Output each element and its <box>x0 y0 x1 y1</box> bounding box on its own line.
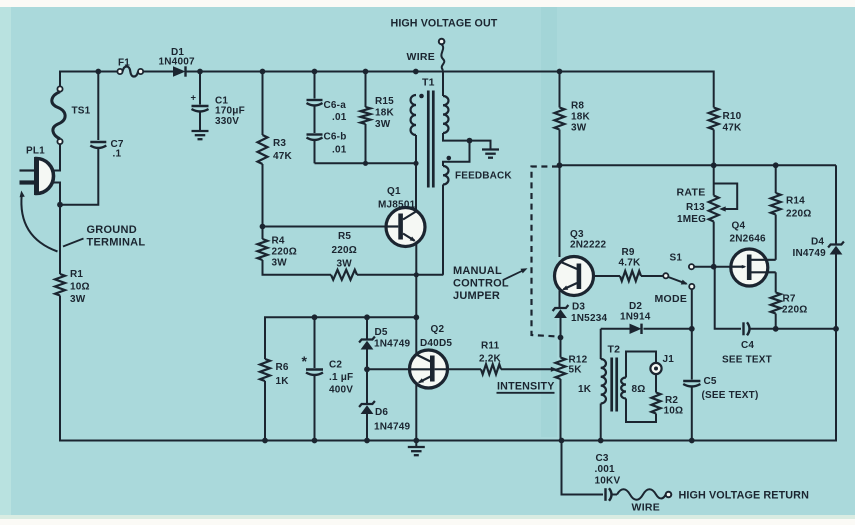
node bottom/T2 <box>598 438 604 444</box>
svg-text:R15: R15 <box>375 96 394 107</box>
svg-text:1K: 1K <box>578 384 592 395</box>
wire T1 secondary top crossover <box>442 70 444 96</box>
fuse F1 <box>117 58 143 77</box>
wire right riser (bottom rail to D4/C4 node) <box>835 329 837 442</box>
wire C6 branch top <box>314 72 316 99</box>
node rail/R3 <box>260 69 266 75</box>
wire C7 top to rail <box>97 72 99 141</box>
svg-text:220Ω: 220Ω <box>782 305 808 316</box>
svg-text:R14: R14 <box>786 196 805 207</box>
wire T2 primary top <box>600 329 602 359</box>
svg-text:5K: 5K <box>569 365 583 376</box>
wire R10 top (rail corner) <box>713 71 715 108</box>
resistor R1 <box>55 269 90 305</box>
wire R13 top <box>713 165 715 195</box>
node S1/R13/Q4-emitter <box>711 264 717 270</box>
svg-text:WIRE: WIRE <box>632 502 661 514</box>
transformer T1 <box>422 77 435 89</box>
svg-text:*: * <box>302 353 308 369</box>
wire MODE pole down <box>691 289 693 329</box>
transistor Q2 D40D5 <box>410 324 453 388</box>
wire PL1 lower blade to junction <box>53 183 60 205</box>
svg-text:8Ω: 8Ω <box>632 384 646 395</box>
wire R8 top <box>559 72 561 108</box>
svg-text:D40D5: D40D5 <box>420 338 452 349</box>
node rail/R15 <box>363 69 369 75</box>
svg-text:TS1: TS1 <box>72 106 91 117</box>
wire (flexible) HV out <box>407 44 445 70</box>
node PL1/C7-return junction <box>57 202 63 208</box>
svg-text:C3: C3 <box>596 453 609 464</box>
svg-text:INTENSITY: INTENSITY <box>497 381 555 393</box>
terminal HV out <box>439 39 445 45</box>
wire Q4 B1 to R7 <box>775 272 777 292</box>
wire C2 top <box>314 317 316 368</box>
svg-text:MODE: MODE <box>655 293 688 305</box>
label HIGH VOLTAGE OUT <box>391 18 498 30</box>
wire bottom ground rail <box>59 440 836 442</box>
potentiometer R13 1MEG (RATE) <box>677 184 738 226</box>
zener D3 1N5234 <box>553 302 608 325</box>
svg-text:1MEG: 1MEG <box>677 214 706 225</box>
wire R3 branch top <box>262 72 264 136</box>
node bottom/C5 <box>689 438 695 444</box>
transistor Q3 2N2222 <box>555 229 607 296</box>
svg-text:220Ω: 220Ω <box>272 247 298 258</box>
T2 primary winding (1K) <box>601 359 606 403</box>
svg-text:2N2646: 2N2646 <box>730 234 766 245</box>
diode D2 1N914 <box>620 301 651 334</box>
svg-text:R8: R8 <box>571 101 584 112</box>
svg-text:Q4: Q4 <box>732 221 746 232</box>
wire Q3 base to R9 <box>581 275 620 277</box>
svg-text:47K: 47K <box>273 151 293 162</box>
wire R2 to secondary bottom <box>626 399 656 423</box>
svg-text:HIGH VOLTAGE OUT: HIGH VOLTAGE OUT <box>391 18 498 30</box>
node mid/R8 <box>557 162 563 168</box>
manual control jumper (dashed) <box>532 167 559 337</box>
node D3/R12/jumper <box>558 335 564 341</box>
resistor R3 <box>258 135 293 164</box>
wire R11 to R12 wiper arrow <box>501 367 557 372</box>
svg-text:10Ω: 10Ω <box>664 406 684 417</box>
wire fuse to D1 <box>143 71 173 73</box>
svg-text:R10: R10 <box>723 111 742 122</box>
svg-text:T2: T2 <box>608 344 621 356</box>
resistor R5 <box>331 231 357 280</box>
T1 phasing dot (feedback) <box>447 156 452 161</box>
svg-text:T1: T1 <box>422 77 435 89</box>
label MANUAL CONTROL JUMPER <box>453 265 528 302</box>
svg-text:.001: .001 <box>595 464 616 475</box>
wire C6-a to C6-b <box>314 107 316 134</box>
wire top B+ rail (left end to fuse) <box>60 71 118 89</box>
node rail/D5 <box>364 314 370 320</box>
svg-text:2N2222: 2N2222 <box>570 240 606 251</box>
resistor R8 <box>555 101 591 134</box>
svg-text:C5: C5 <box>704 376 717 387</box>
svg-text:TERMINAL: TERMINAL <box>87 237 146 249</box>
svg-text:18K: 18K <box>571 112 591 123</box>
wire T1 primary to Q1 collector <box>415 135 417 211</box>
wire feedback to emitter row <box>442 185 444 275</box>
svg-text:D6: D6 <box>375 407 388 418</box>
wire Q2 base <box>367 368 411 370</box>
wire C4 to R7/D4 <box>751 328 837 330</box>
wire junction to C7 bottom <box>60 149 98 205</box>
capacitor C4 <box>722 322 772 365</box>
svg-text:R11: R11 <box>481 341 500 352</box>
T1 secondary winding <box>443 96 448 133</box>
svg-text:3W: 3W <box>70 294 86 305</box>
svg-text:220Ω: 220Ω <box>332 245 358 256</box>
potentiometer R12 5K <box>556 338 592 396</box>
svg-text:HIGH VOLTAGE RETURN: HIGH VOLTAGE RETURN <box>679 490 810 502</box>
svg-text:R13: R13 <box>686 202 705 213</box>
svg-text:IN4749: IN4749 <box>793 248 827 259</box>
transformer T2 <box>608 344 621 356</box>
wire junction to R1 <box>59 205 61 274</box>
wire S1 node down to C4 row <box>714 267 741 329</box>
node rail/C7 <box>95 69 101 75</box>
svg-text:170μF: 170μF <box>215 106 245 117</box>
wire snubber row <box>315 162 417 164</box>
T1 feedback winding <box>443 166 512 185</box>
node mid/R14 <box>773 162 779 168</box>
wire D2 row <box>601 328 692 330</box>
resistor R6 <box>260 359 289 387</box>
wire R5 to feedback corner <box>357 274 443 276</box>
wire C5 bottom <box>691 388 693 442</box>
transistor Q4 2N2646 (UJT) <box>730 221 776 287</box>
wire R8 bottom <box>559 130 561 166</box>
wire secondary bottom tap <box>443 133 491 149</box>
resistor R4 <box>258 236 298 269</box>
node rail/T1 primary <box>413 69 419 75</box>
svg-text:.1: .1 <box>113 149 122 160</box>
node bottom/D6 <box>364 438 370 444</box>
wire R13 bottom <box>713 222 715 267</box>
terminal HV return <box>666 492 672 498</box>
zener D6 1N4749 <box>359 401 410 433</box>
svg-text:400V: 400V <box>329 385 353 396</box>
svg-text:C6-a: C6-a <box>324 100 347 111</box>
wire R15 top <box>365 72 367 108</box>
diode D1 1N4007 <box>159 47 195 77</box>
capacitor C5 <box>683 376 758 401</box>
label HIGH VOLTAGE RETURN <box>679 490 810 502</box>
svg-text:JUMPER: JUMPER <box>453 290 500 302</box>
svg-text:S1: S1 <box>670 253 683 264</box>
wire R14 top <box>775 165 777 193</box>
wire D5 to base node <box>366 350 368 370</box>
svg-text:CONTROL: CONTROL <box>453 278 509 290</box>
wire D5 top <box>366 317 368 339</box>
svg-text:WIRE: WIRE <box>407 51 436 63</box>
T1 primary winding <box>411 95 416 135</box>
node bottom/Q2 emitter <box>413 438 419 444</box>
wire D4 top <box>835 165 837 244</box>
node rail/R8 <box>557 69 563 75</box>
wire Q3 collector <box>559 165 561 257</box>
node rail/C6 <box>312 69 318 75</box>
capacitor C3 .001 10KV <box>595 453 621 501</box>
node snubber/collector <box>413 161 418 166</box>
svg-text:.01: .01 <box>332 112 347 123</box>
capacitor C1 (+) <box>191 93 245 128</box>
T1 phasing dot (primary) <box>419 94 424 99</box>
wire J1 to R2 <box>655 374 657 392</box>
wire D4 bottom <box>835 255 837 329</box>
jack J1 <box>650 354 674 374</box>
wire tap to feedback winding <box>443 141 470 166</box>
svg-text:PL1: PL1 <box>26 146 45 157</box>
capacitor C7 <box>90 139 124 160</box>
svg-text:R2: R2 <box>665 395 678 406</box>
svg-text:18K: 18K <box>375 108 395 119</box>
wire R7 bottom <box>775 314 777 329</box>
T1 core <box>428 91 433 188</box>
wire Q1 base <box>263 226 388 228</box>
svg-text:C6-b: C6-b <box>324 132 347 143</box>
resistor R11 2.2K <box>479 341 502 375</box>
node emitter/divider rail <box>413 314 419 320</box>
svg-text:1N4749: 1N4749 <box>374 339 410 350</box>
switch TS1 <box>52 86 91 144</box>
svg-text:C4: C4 <box>741 340 754 351</box>
wire T2 primary bottom <box>600 404 602 442</box>
zener D5 1N4749 <box>359 327 410 350</box>
svg-text:3W: 3W <box>272 258 288 269</box>
node bottom/C2 <box>312 438 318 444</box>
svg-text:MANUAL: MANUAL <box>453 265 502 277</box>
wire R10 bottom <box>713 130 715 166</box>
node D5/D6/Q2-base <box>364 366 370 372</box>
svg-text:MJ8501: MJ8501 <box>378 200 416 211</box>
ground (main rail) <box>408 441 425 456</box>
node mid/R10-R13 <box>711 162 717 168</box>
svg-text:R4: R4 <box>272 236 285 247</box>
svg-text:47K: 47K <box>723 123 743 134</box>
wire R9 to MODE <box>641 275 663 277</box>
svg-text:R9: R9 <box>622 247 635 258</box>
svg-text:RATE: RATE <box>677 187 706 199</box>
svg-text:Q2: Q2 <box>431 324 445 335</box>
svg-text:D4: D4 <box>811 237 824 248</box>
svg-text:FEEDBACK: FEEDBACK <box>455 171 512 182</box>
wire D6 to bottom rail <box>366 414 368 441</box>
wire TS1 to PL1 upper blade <box>52 144 60 170</box>
wire Q3 emitter to D3 <box>559 291 561 308</box>
wire R14 to Q4 B2 <box>775 215 777 260</box>
svg-text:220Ω: 220Ω <box>786 209 812 220</box>
ground (C1) <box>192 131 209 139</box>
svg-text:.1 μF: .1 μF <box>329 372 353 383</box>
wire R15 bottom <box>365 124 367 163</box>
svg-text:3W: 3W <box>375 119 391 130</box>
svg-text:330V: 330V <box>215 116 239 127</box>
svg-text:10KV: 10KV <box>595 476 621 487</box>
svg-text:3W: 3W <box>337 259 353 270</box>
svg-text:.01: .01 <box>332 145 347 156</box>
svg-text:R7: R7 <box>783 294 796 305</box>
svg-text:C2: C2 <box>329 360 342 371</box>
node C4/D4/riser <box>833 326 839 332</box>
wire C1 branch <box>199 72 201 105</box>
svg-text:Q3: Q3 <box>570 229 584 240</box>
wire Q2 base to R11 <box>435 368 481 370</box>
node tap/feedback <box>467 138 473 144</box>
label INTENSITY <box>497 381 555 393</box>
svg-text:D3: D3 <box>572 302 585 313</box>
wire C3 branch <box>562 441 604 495</box>
svg-text:2.2K: 2.2K <box>479 354 502 365</box>
capacitor C6-a <box>307 100 347 123</box>
node rail/C2 <box>312 314 318 320</box>
svg-text:10Ω: 10Ω <box>70 282 90 293</box>
wire D3 to node <box>560 318 562 338</box>
svg-text:1N4007: 1N4007 <box>159 57 195 68</box>
wire C6-b bottom <box>314 141 316 163</box>
svg-text:3W: 3W <box>571 123 587 134</box>
capacitor C2 <box>302 353 354 396</box>
node R3/R4/Q1-base <box>260 224 266 230</box>
svg-text:D2: D2 <box>629 301 642 312</box>
node bottom/C3 branch <box>559 438 565 444</box>
resistor R2 10ohm <box>651 393 683 417</box>
svg-text:+: + <box>191 93 197 104</box>
switch MODE <box>655 273 695 305</box>
wire secondary top to J1 <box>626 352 656 378</box>
transistor Q1 MJ8501 <box>378 186 425 247</box>
svg-text:1N4749: 1N4749 <box>374 422 410 433</box>
svg-text:D5: D5 <box>375 327 388 338</box>
svg-text:R1: R1 <box>70 269 83 280</box>
wire low divider rail <box>265 317 416 359</box>
switch S1 <box>670 253 732 270</box>
wire R4 to R5 row <box>263 260 332 275</box>
svg-text:(SEE TEXT): (SEE TEXT) <box>702 390 759 401</box>
svg-text:R3: R3 <box>273 138 286 149</box>
wire C5 top <box>691 329 693 380</box>
label GROUND TERMINAL with arrow <box>20 191 146 252</box>
svg-text:4.7K: 4.7K <box>619 258 642 269</box>
svg-text:R5: R5 <box>338 231 351 242</box>
wire R4 top stub <box>262 227 264 240</box>
wire Q2 collector <box>415 317 417 354</box>
svg-text:1K: 1K <box>276 376 290 387</box>
svg-text:SEE TEXT: SEE TEXT <box>722 355 772 366</box>
ground (T1 tap) <box>482 150 499 158</box>
node C4/R7 <box>773 326 779 332</box>
svg-text:Q1: Q1 <box>387 186 401 197</box>
resistor R9 4.7K <box>619 247 642 281</box>
node rail/C1 <box>197 69 203 75</box>
node bottom/R6 <box>262 438 268 444</box>
node snubber/R15 <box>363 161 368 166</box>
wire Q2 emitter to ground rail <box>415 384 417 441</box>
wire C1 to ground <box>199 113 201 131</box>
svg-text:R6: R6 <box>276 362 289 373</box>
T2 secondary winding (8 ohm) <box>621 378 645 399</box>
resistor R15 <box>361 96 395 130</box>
node Q1 emitter / R5 / feedback <box>414 272 419 277</box>
T2 core <box>612 358 617 412</box>
wire mid rail R8..D4 <box>560 164 837 166</box>
capacitor C6-b <box>307 132 347 156</box>
svg-text:1N5234: 1N5234 <box>571 313 607 324</box>
svg-text:J1: J1 <box>663 354 675 365</box>
resistor R7 <box>771 293 808 316</box>
plug PL1 <box>20 146 54 196</box>
wire R3 to base node <box>262 164 264 227</box>
wire R12 to bottom rail <box>560 379 562 441</box>
node D2/MODE/C5 <box>689 326 695 332</box>
wire R1 to bottom rail <box>59 296 61 442</box>
svg-text:GROUND: GROUND <box>87 224 137 236</box>
svg-text:1N914: 1N914 <box>620 312 651 323</box>
svg-text:F1: F1 <box>118 58 130 69</box>
wire D6 top <box>366 369 368 403</box>
zener D4 1N4749 <box>793 237 844 260</box>
resistor R10 <box>709 108 742 134</box>
resistor R14 <box>771 193 812 220</box>
wire Q1 emitter down <box>415 243 417 317</box>
wire (flexible) HV return <box>613 489 666 513</box>
wire R6 to bottom rail <box>264 381 266 441</box>
wire C2 bottom <box>314 376 316 441</box>
wire top B+ rail (D1 to right corner) <box>186 71 714 73</box>
